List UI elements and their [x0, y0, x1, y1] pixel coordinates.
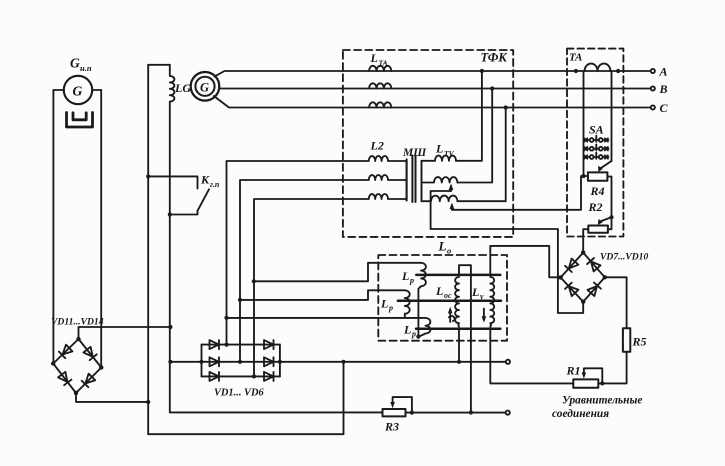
- rectifier bridge VD7-VD10 diamond: [561, 253, 605, 302]
- wiper of R3: [393, 397, 412, 413]
- rectifier block VD1-VD6 right bus: [279, 345, 281, 377]
- wire: right vertical from Gн.п to VD11-14 right vertex: [100, 90, 102, 368]
- tap arrow on L_TV-3: [451, 205, 453, 210]
- svg-text:VD7...VD10: VD7...VD10: [600, 252, 648, 263]
- inductor LG on bus2: [170, 65, 383, 413]
- label L_TV: [435, 142, 455, 159]
- svg-text:G: G: [70, 56, 80, 71]
- label L_у: [471, 285, 484, 301]
- diode VD12 (top-right edge): [83, 347, 96, 360]
- wire: L_TV-3 tap to R4 left junction: [452, 176, 581, 210]
- svg-text:ос: ос: [444, 291, 452, 300]
- svg-text:G: G: [200, 81, 209, 95]
- wire: bus2 top loop: [148, 64, 170, 66]
- wire: phase C drop inside ТФК to L_TV w3: [458, 108, 506, 202]
- diode VD10 (bottom-right edge): [588, 283, 601, 296]
- L2 common bus: [406, 160, 408, 201]
- arrow onto R3: [390, 402, 395, 408]
- switch SA row 1: [584, 136, 609, 142]
- wire: ТА secondary right vertical: [611, 71, 613, 161]
- winding L_ос column: [455, 277, 459, 327]
- diode VD1: [210, 340, 220, 349]
- wire: L_у top to VD7-10 left vertex: [490, 246, 560, 277]
- label L_ос: [435, 284, 452, 300]
- transformer МШ core bars: [412, 156, 415, 203]
- svg-text:ТА: ТА: [569, 52, 582, 64]
- arrow onto R2: [598, 219, 603, 225]
- svg-text:R3: R3: [384, 420, 399, 434]
- node bus1 / VD11-14 bottom: [146, 400, 150, 404]
- node phase A right of ТА: [616, 69, 620, 73]
- svg-text:Уравнительные: Уравнительные: [562, 395, 642, 407]
- wire: R4 left stub: [584, 175, 588, 177]
- arrow down (L_у): [483, 309, 485, 320]
- winding L_TV-3: [422, 196, 458, 202]
- node: VD11-14 vertices: [51, 337, 104, 395]
- svg-text:р: р: [411, 330, 416, 339]
- node R4 left: [581, 174, 585, 178]
- diode VD3: [210, 372, 220, 381]
- rail 2 of L_о: [398, 299, 501, 302]
- wire+inductor L_р3: [227, 318, 431, 337]
- svg-text:R4: R4: [590, 184, 605, 198]
- diode VD5: [264, 357, 274, 366]
- resistor R3: [383, 409, 406, 416]
- resistor R4: [588, 172, 608, 180]
- svg-text:L: L: [380, 297, 388, 311]
- svg-text:у: у: [479, 292, 484, 301]
- svg-text:ТФК: ТФК: [481, 51, 509, 65]
- wire: SA right to R4 wiper: [601, 161, 612, 168]
- dashed block ТФК: [343, 50, 513, 237]
- winding L_TV-1: [422, 156, 457, 161]
- wire: VD11-14 top vertex to bus2: [79, 327, 171, 339]
- L_TV common bus: [421, 161, 423, 201]
- resistor R5: [623, 328, 630, 352]
- wire: drop from L_ос jog to bottom rail: [470, 276, 472, 413]
- arrow onto R4: [598, 166, 603, 172]
- node bus2 / VD11-14 top: [168, 325, 172, 329]
- rectifier bridge VD11-VD14 diamond: [53, 339, 101, 393]
- diode VD8 (top-right edge): [587, 258, 600, 271]
- diode VD4: [264, 340, 274, 349]
- wire: bus1 (left bus x148) down and to mid rail: [148, 65, 343, 434]
- switch SA row 2: [584, 144, 609, 150]
- wire+inductor L_р1 (from feed3 into box): [254, 263, 426, 337]
- resistor R2: [588, 226, 608, 233]
- node phase B / drop: [490, 86, 494, 90]
- squiggle on L_ос arrow: [449, 316, 455, 321]
- node feed1/L_р3: [224, 316, 228, 320]
- node feed3/L_р1: [252, 279, 256, 283]
- winding L_у column: [490, 277, 494, 327]
- inductor L_ТА phase C: [369, 102, 391, 107]
- svg-text:VD1... VD6: VD1... VD6: [214, 388, 264, 399]
- wire: phase A drop inside ТФК to L_TV w1: [456, 71, 482, 161]
- diode VD7 (top-left edge): [565, 259, 578, 272]
- winding L2-1 with wire to VD1-6 feed 1: [227, 156, 407, 345]
- terminal mid rail: [506, 360, 510, 364]
- inductor L_ТА phase A: [369, 66, 391, 71]
- generator G n.p circle: [64, 76, 92, 104]
- svg-text:G: G: [73, 84, 83, 99]
- wire: VD7-10 right vertex to R5: [605, 277, 627, 328]
- terminal bottom rail: [506, 411, 510, 415]
- svg-text:L: L: [403, 323, 411, 337]
- svg-text:о: о: [447, 246, 451, 256]
- mid rail row 2 (bus2 to terminal): [170, 361, 506, 363]
- wire: phase B: [219, 88, 651, 90]
- wire: left vertical from Gн.п to VD11-14 left vertex: [52, 90, 54, 364]
- node R2 wiper tie: [609, 215, 613, 219]
- arrow up (L_ос regulation): [449, 310, 451, 322]
- svg-text:К: К: [200, 173, 210, 187]
- svg-text:VD11...VD14: VD11...VD14: [51, 317, 104, 328]
- wiper of R1: [584, 368, 602, 383]
- node drop/bottom rail: [469, 410, 473, 414]
- label L_р1: [401, 269, 414, 285]
- wire: Gн.п right stub: [92, 89, 101, 91]
- transformer ТА primary humps on phase A: [585, 64, 611, 71]
- svg-text:L: L: [370, 51, 378, 65]
- label Kг.п: [200, 173, 220, 190]
- winding L_TV-2: [422, 177, 458, 182]
- nodes VD7-10 vertices: [558, 250, 607, 303]
- label L_р2: [380, 297, 393, 313]
- svg-text:C: C: [660, 101, 669, 115]
- wire: R5 bottom to R1 right: [598, 352, 626, 384]
- inductor L_ТА phase B: [369, 83, 391, 88]
- wire: phase C: [214, 96, 651, 108]
- rail 3 of L_о: [416, 327, 500, 330]
- generator G (main) double circle: [191, 72, 220, 101]
- label L_ТА: [370, 51, 388, 68]
- wire: R1 left to L_у bottom: [490, 329, 573, 384]
- svg-text:р: р: [388, 304, 393, 313]
- dashed block ТА: [567, 49, 623, 237]
- node phase A / drop: [480, 69, 484, 73]
- row 1 of VD1-6: [202, 344, 280, 346]
- diode VD9 (bottom-left edge): [565, 283, 578, 296]
- terminal C: [651, 105, 655, 109]
- winding L2-3 with wire to VD1-6 feed 3: [254, 194, 407, 376]
- svg-text:B: B: [659, 82, 668, 96]
- label L_о: [438, 239, 452, 256]
- node R1 right: [600, 381, 604, 385]
- node R3 wiper tie: [410, 411, 414, 415]
- svg-text:R1: R1: [566, 364, 581, 378]
- node L_ос drop / mid rail: [457, 360, 461, 364]
- dashed block L_о: [378, 255, 507, 341]
- svg-text:L: L: [401, 269, 409, 283]
- node phase C / drop: [504, 105, 508, 109]
- winding L2-2 with wire to VD1-6 feed 2: [240, 175, 407, 362]
- wire+inductor L_р2: [240, 290, 410, 317]
- diode VD11 (top-left edge): [59, 345, 73, 359]
- wire: phase B drop inside ТФК to L_TV w2: [458, 89, 493, 183]
- node on bus1 at Kг.п: [146, 174, 150, 178]
- svg-text:L: L: [438, 239, 447, 254]
- diode VD2: [210, 357, 220, 366]
- rail 1 of L_о: [416, 274, 500, 277]
- nodes of VD1-6: [168, 343, 345, 379]
- tap arrow on L_TV-2: [450, 186, 452, 191]
- svg-text:LG: LG: [174, 81, 191, 95]
- node phase A left of ТА: [574, 69, 578, 73]
- wire: VD11-14 bottom vertex to bus1: [76, 393, 148, 402]
- wire: R4 right down to R2 right: [607, 177, 611, 230]
- row 3 of VD1-6: [202, 375, 280, 377]
- label L_р3: [403, 323, 416, 339]
- wire: L_TV-2 tap to VD7-10 bottom vertex: [431, 191, 584, 313]
- terminal A: [651, 69, 655, 73]
- wire: ТА secondary left vertical to R4 junction: [583, 71, 585, 176]
- svg-text:соединения: соединения: [552, 408, 609, 420]
- wire: bottom rail right of R3 to terminal: [406, 412, 506, 414]
- label Gн.п: [70, 56, 92, 74]
- svg-text:R2: R2: [588, 200, 603, 214]
- svg-text:L2: L2: [370, 139, 384, 153]
- wire: R2 left to VD7-10 top vertex: [583, 229, 588, 252]
- arrow onto R1: [582, 372, 587, 378]
- resistor R1: [573, 379, 598, 387]
- terminal B: [651, 86, 655, 90]
- diode VD6: [264, 372, 274, 381]
- jog wire L_ос top to drop wire: [459, 265, 471, 275]
- svg-text:г.п: г.п: [210, 180, 220, 189]
- svg-text:L: L: [435, 142, 443, 156]
- switch Kг.п: [148, 176, 209, 214]
- wire: Gн.п left stub: [53, 89, 63, 91]
- svg-text:н.п: н.п: [80, 63, 92, 73]
- wire: R2 wiper diagonal: [600, 217, 612, 221]
- svg-text:R5: R5: [632, 335, 647, 349]
- node L_р1/L_р3 join: [416, 335, 420, 339]
- rectifier block VD1-VD6 left bus: [201, 345, 203, 377]
- switch SA row 3: [584, 153, 609, 159]
- node on bus2 at Kг.п: [168, 212, 172, 216]
- svg-text:A: A: [659, 65, 668, 79]
- node feed2/L_р2: [238, 298, 242, 302]
- svg-text:L: L: [435, 284, 443, 298]
- wire: L_ос bottom to mid terminal rail: [458, 329, 460, 362]
- wire: phase A: [215, 71, 651, 77]
- diode VD14 (bottom-right edge): [82, 374, 96, 388]
- svg-text:L: L: [471, 285, 479, 299]
- diode VD13 (bottom-left edge): [58, 372, 71, 385]
- brush symbol under Gн.п: [67, 113, 93, 128]
- svg-text:р: р: [409, 276, 414, 285]
- svg-text:SA: SA: [589, 123, 604, 137]
